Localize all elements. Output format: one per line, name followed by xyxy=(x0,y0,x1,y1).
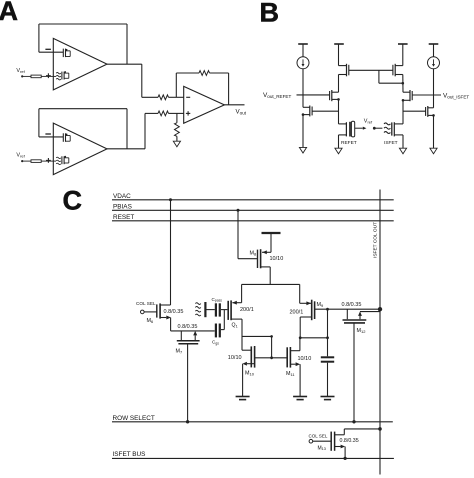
svg-text:VDAC: VDAC xyxy=(113,193,131,200)
svg-text:Vout_REFET: Vout_REFET xyxy=(263,92,291,99)
svg-text:200/1: 200/1 xyxy=(290,309,304,315)
svg-text:0.8/0.35: 0.8/0.35 xyxy=(342,302,362,308)
svg-text:M10: M10 xyxy=(245,370,255,376)
svg-text:0.8/0.35: 0.8/0.35 xyxy=(340,438,359,444)
svg-text:M7: M7 xyxy=(176,348,184,354)
svg-text:Vref: Vref xyxy=(16,68,25,74)
svg-text:10/10: 10/10 xyxy=(298,356,312,362)
svg-text:M9: M9 xyxy=(317,302,325,308)
svg-text:ISFET COL OUT: ISFET COL OUT xyxy=(373,222,379,258)
svg-text:ISFET: ISFET xyxy=(384,140,398,146)
svg-text:ISFET BUS: ISFET BUS xyxy=(113,451,146,458)
svg-text:0.8/0.35: 0.8/0.35 xyxy=(178,324,198,330)
svg-text:COL SEL: COL SEL xyxy=(136,301,156,306)
svg-text:M6: M6 xyxy=(147,318,155,324)
svg-text:C: C xyxy=(63,185,83,215)
svg-text:Cgs: Cgs xyxy=(212,340,219,346)
svg-text:REFET: REFET xyxy=(341,140,357,146)
svg-text:0.8/0.35: 0.8/0.35 xyxy=(164,309,184,315)
svg-text:10/10: 10/10 xyxy=(270,256,284,262)
svg-text:Vout_ISFET: Vout_ISFET xyxy=(443,93,469,100)
svg-text:M13: M13 xyxy=(318,445,326,451)
svg-text:M12: M12 xyxy=(357,328,367,334)
svg-text:M8: M8 xyxy=(250,251,258,257)
svg-text:Vout: Vout xyxy=(236,109,247,116)
svg-text:B: B xyxy=(260,0,280,27)
svg-text:Vref: Vref xyxy=(16,153,25,159)
svg-text:RESET: RESET xyxy=(113,214,134,221)
svg-text:10/10: 10/10 xyxy=(228,355,242,361)
svg-text:200/1: 200/1 xyxy=(240,307,254,313)
svg-text:Cpass: Cpass xyxy=(212,297,223,303)
svg-text:ROW SELECT: ROW SELECT xyxy=(113,415,155,422)
svg-text:Vref: Vref xyxy=(364,119,373,125)
svg-text:1: 1 xyxy=(236,324,238,328)
svg-text:A: A xyxy=(0,0,18,26)
svg-text:PBIAS: PBIAS xyxy=(113,204,132,211)
svg-text:COL SEL: COL SEL xyxy=(309,434,328,439)
svg-text:M11: M11 xyxy=(286,371,295,377)
